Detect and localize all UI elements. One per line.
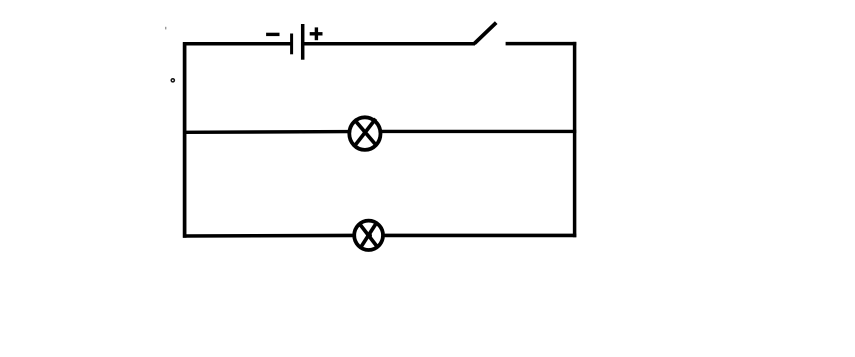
battery B1 plus label: [310, 27, 323, 40]
wire middle right segment: [381, 130, 576, 133]
battery B1 positive plate: [301, 24, 305, 60]
lamp L2 cross: [359, 222, 378, 247]
wire left vertical: [183, 42, 187, 238]
wire bottom left segment: [183, 234, 354, 238]
wire top-left segment: [183, 42, 291, 46]
battery B1 negative plate: [290, 34, 293, 55]
wire middle left segment: [183, 130, 349, 134]
switch S1 lever: [474, 23, 496, 44]
lamp L1 cross: [354, 119, 376, 145]
stray speck: [165, 27, 166, 30]
lamp L1 circle: [349, 117, 380, 150]
wire bottom right segment: [384, 234, 576, 238]
wire battery to switch: [303, 42, 475, 46]
battery B1 minus label: [266, 33, 279, 36]
wire switch to top-right corner: [506, 42, 577, 46]
stray dot: [171, 79, 174, 82]
wire right vertical: [573, 42, 577, 237]
lamp L2 circle: [354, 221, 383, 250]
